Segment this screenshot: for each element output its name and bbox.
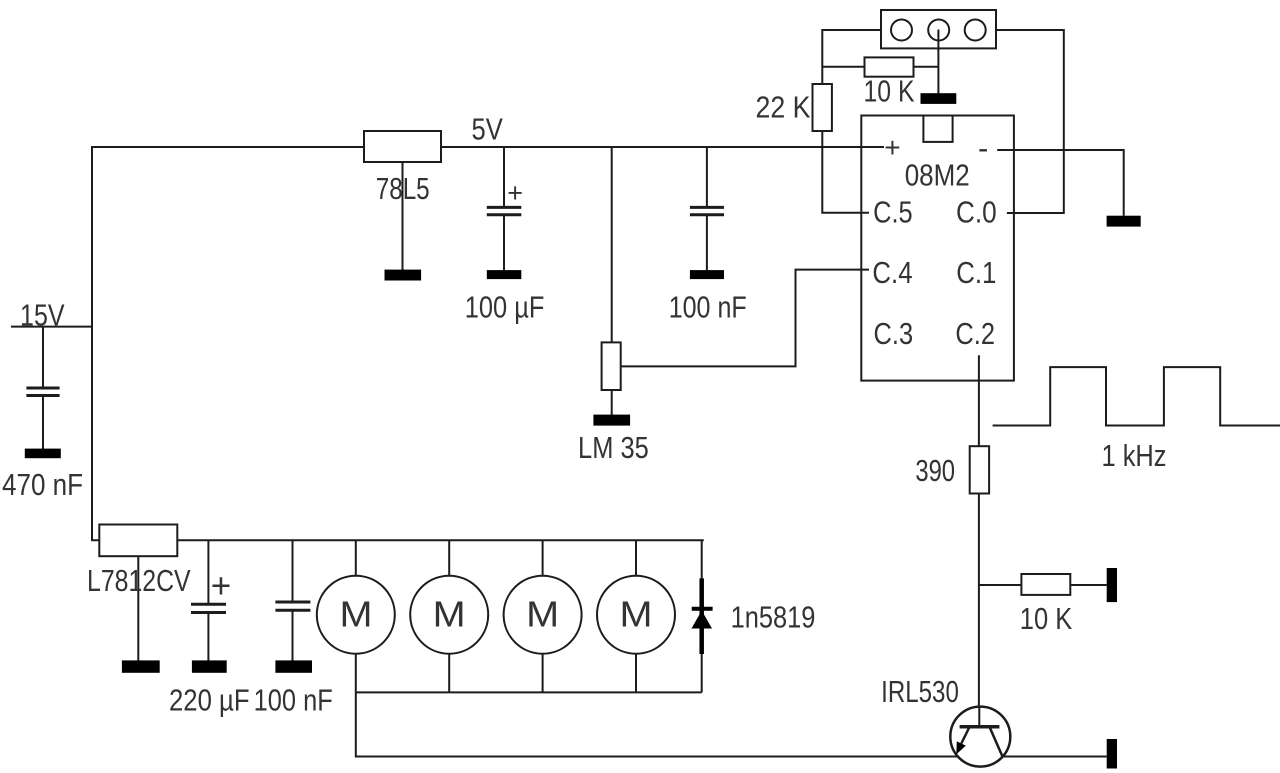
svg-text:C.4: C.4 [872, 255, 912, 290]
svg-text:M: M [526, 594, 559, 635]
svg-text:470 nF: 470 nF [2, 467, 83, 502]
svg-text:100 nF: 100 nF [254, 682, 333, 717]
svg-text:+: + [211, 566, 231, 605]
svg-text:L7812CV: L7812CV [87, 563, 191, 598]
svg-text:M: M [340, 594, 373, 635]
svg-text:100 µF: 100 µF [465, 290, 545, 325]
svg-text:C.1: C.1 [956, 255, 996, 290]
svg-text:15V: 15V [20, 298, 65, 333]
svg-text:5V: 5V [472, 112, 504, 147]
svg-text:10 K: 10 K [1020, 601, 1073, 636]
svg-text:22 K: 22 K [756, 90, 811, 125]
svg-text:390: 390 [915, 453, 955, 488]
svg-text:M: M [620, 594, 653, 635]
svg-text:IRL530: IRL530 [881, 674, 959, 709]
svg-text:-: - [978, 131, 988, 166]
svg-text:+: + [507, 178, 523, 208]
svg-text:C.5: C.5 [873, 195, 913, 230]
svg-text:M: M [433, 594, 466, 635]
svg-text:1n5819: 1n5819 [731, 599, 816, 634]
svg-text:220 µF: 220 µF [169, 682, 250, 717]
svg-text:LM 35: LM 35 [578, 430, 649, 465]
svg-text:100 nF: 100 nF [669, 290, 747, 325]
svg-text:C.0: C.0 [956, 195, 997, 230]
svg-text:1 kHz: 1 kHz [1102, 438, 1167, 473]
svg-text:78L5: 78L5 [376, 171, 430, 206]
svg-text:08M2: 08M2 [905, 158, 970, 193]
svg-text:10 K: 10 K [864, 74, 915, 109]
svg-text:C.2: C.2 [955, 316, 995, 351]
svg-text:+: + [884, 132, 900, 163]
svg-text:C.3: C.3 [874, 316, 914, 351]
